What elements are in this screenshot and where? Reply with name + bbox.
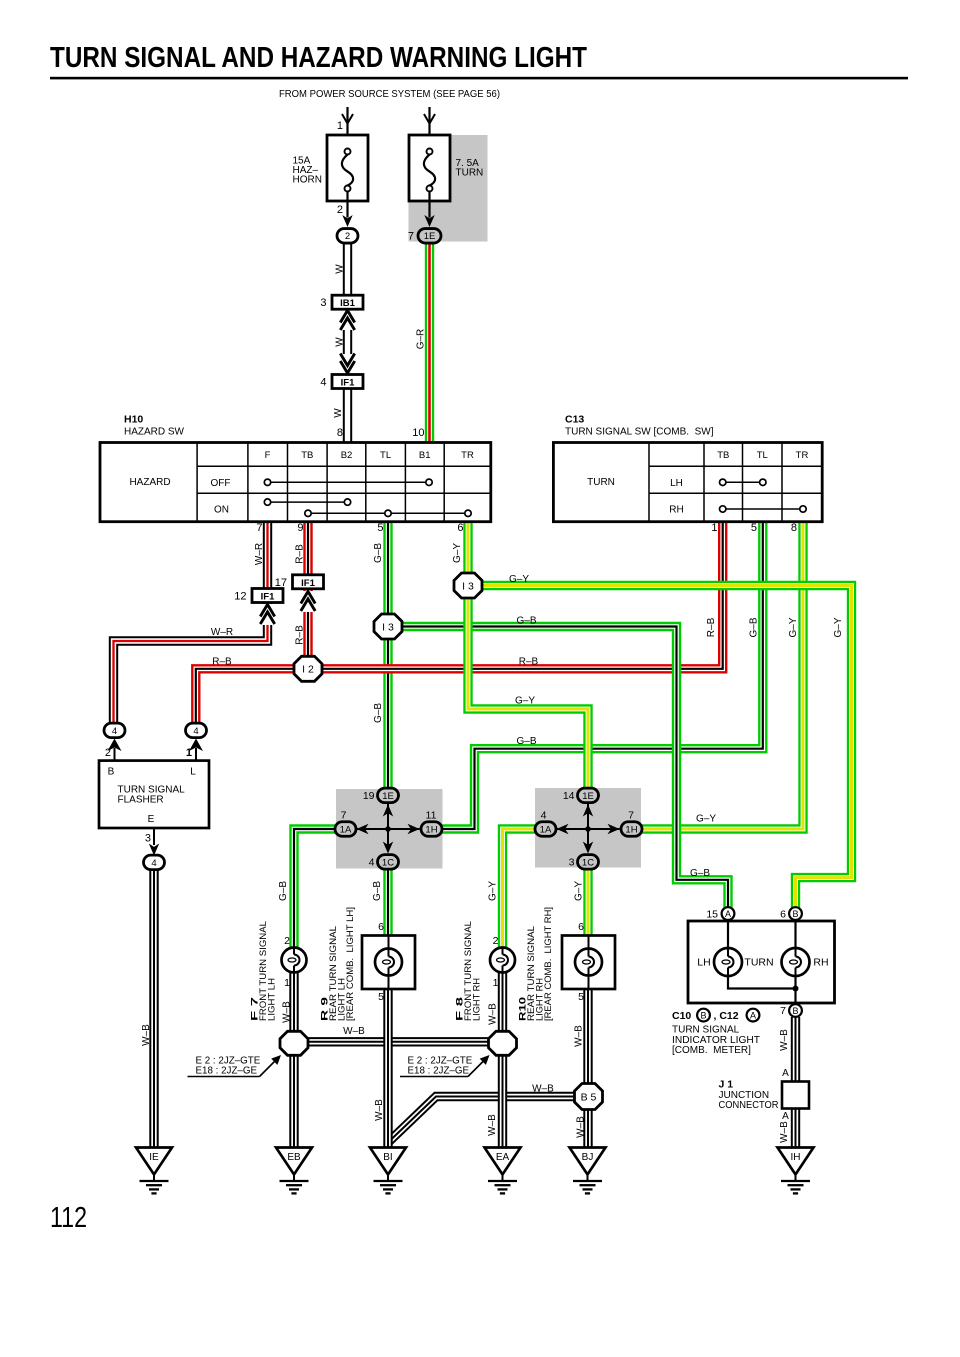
svg-text:G–Y: G–Y	[833, 617, 844, 637]
svg-text:IH: IH	[791, 1152, 801, 1163]
svg-text:4: 4	[193, 726, 198, 737]
svg-text:G–R: G–R	[415, 329, 426, 350]
svg-text:5: 5	[377, 522, 383, 534]
svg-text:4: 4	[320, 377, 326, 389]
svg-text:5: 5	[751, 522, 757, 534]
svg-text:R–B: R–B	[706, 617, 717, 637]
svg-text:6: 6	[457, 522, 463, 534]
svg-text:TURN: TURN	[744, 957, 773, 969]
svg-text:IF1: IF1	[261, 592, 275, 603]
svg-text:G–B: G–B	[516, 736, 536, 747]
svg-text:7: 7	[628, 810, 634, 822]
svg-text:I 3: I 3	[382, 621, 394, 633]
svg-text:W–B: W–B	[779, 1029, 790, 1051]
svg-text:G–B: G–B	[690, 868, 710, 879]
svg-text:1A: 1A	[540, 824, 552, 835]
svg-text:E18 : 2JZ–GE: E18 : 2JZ–GE	[408, 1065, 470, 1076]
svg-text:CONNECTOR: CONNECTOR	[719, 1100, 779, 1111]
svg-text:1: 1	[711, 522, 717, 534]
svg-text:3: 3	[569, 857, 575, 869]
svg-text:IF1: IF1	[301, 578, 315, 589]
svg-text:HAZARD SW: HAZARD SW	[124, 427, 185, 438]
svg-text:2: 2	[337, 204, 343, 216]
svg-text:ON: ON	[214, 505, 229, 516]
svg-text:B 5: B 5	[581, 1091, 597, 1103]
svg-text:FLASHER: FLASHER	[118, 795, 164, 806]
svg-text:C10: C10	[672, 1010, 691, 1022]
svg-text:TB: TB	[301, 450, 313, 461]
svg-text:IF1: IF1	[341, 378, 355, 389]
svg-text:R–B: R–B	[212, 657, 232, 668]
svg-text:G–B: G–B	[516, 616, 536, 627]
svg-text:A: A	[782, 1111, 789, 1122]
svg-text:1H: 1H	[425, 824, 437, 835]
svg-text:G–Y: G–Y	[788, 617, 799, 637]
svg-text:B2: B2	[341, 450, 353, 461]
svg-text:TURN: TURN	[456, 168, 484, 179]
svg-text:TB: TB	[717, 450, 729, 461]
svg-text:5: 5	[578, 991, 584, 1003]
svg-text:1: 1	[493, 977, 499, 989]
svg-text:W–R: W–R	[211, 627, 233, 638]
svg-text:F: F	[265, 450, 271, 461]
svg-text:TR: TR	[796, 450, 809, 461]
svg-text:A: A	[782, 1068, 789, 1079]
svg-text:7: 7	[780, 1005, 786, 1017]
svg-text:HORN: HORN	[293, 175, 322, 186]
svg-text:TR: TR	[461, 450, 474, 461]
svg-text:1H: 1H	[625, 824, 637, 835]
svg-text:[REAR COMB. LIGHT RH]: [REAR COMB. LIGHT RH]	[543, 907, 554, 1021]
svg-text:2: 2	[345, 231, 350, 242]
svg-text:W–B: W–B	[532, 1084, 554, 1095]
svg-text:TURN: TURN	[587, 477, 615, 488]
svg-text:1E: 1E	[424, 231, 436, 242]
svg-text:FROM POWER SOURCE SYSTEM (SEE: FROM POWER SOURCE SYSTEM (SEE PAGE 56)	[279, 89, 500, 100]
svg-text:W–R: W–R	[254, 543, 265, 565]
svg-text:A: A	[750, 1011, 756, 1021]
svg-text:1: 1	[284, 977, 290, 989]
svg-text:A: A	[725, 909, 731, 919]
svg-text:6: 6	[578, 921, 584, 933]
svg-text:TURN SIGNAL SW [COMB. SW]: TURN SIGNAL SW [COMB. SW]	[565, 427, 714, 438]
svg-text:W: W	[334, 337, 345, 347]
svg-text:TL: TL	[380, 450, 391, 461]
svg-text:3: 3	[320, 297, 326, 309]
svg-text:7: 7	[256, 522, 262, 534]
svg-text:BJ: BJ	[582, 1152, 594, 1163]
svg-text:IE: IE	[149, 1152, 159, 1163]
svg-text:I 2: I 2	[302, 664, 314, 676]
svg-text:W–B: W–B	[576, 1116, 587, 1138]
svg-text:14: 14	[563, 790, 575, 802]
svg-text:4: 4	[151, 858, 156, 869]
svg-text:G–B: G–B	[372, 881, 383, 901]
svg-text:W–B: W–B	[141, 1024, 152, 1046]
svg-text:2: 2	[284, 935, 290, 947]
svg-text:TURN SIGNAL: TURN SIGNAL	[672, 1025, 740, 1036]
svg-text:W–B: W–B	[487, 1114, 498, 1136]
svg-text:E18 : 2JZ–GE: E18 : 2JZ–GE	[196, 1065, 258, 1076]
svg-text:[COMB. METER]: [COMB. METER]	[672, 1045, 751, 1056]
svg-text:5: 5	[378, 991, 384, 1003]
svg-text:HAZARD: HAZARD	[129, 477, 170, 488]
svg-text:1: 1	[337, 120, 343, 132]
svg-text:1C: 1C	[582, 857, 594, 868]
svg-text:I 3: I 3	[462, 580, 474, 592]
svg-text:G–Y: G–Y	[509, 574, 529, 585]
svg-text:R–B: R–B	[519, 657, 539, 668]
svg-text:W–B: W–B	[488, 1003, 499, 1025]
svg-text:1: 1	[186, 747, 192, 759]
svg-text:1E: 1E	[582, 791, 594, 802]
svg-text:B: B	[108, 767, 115, 778]
svg-text:W–B: W–B	[343, 1026, 365, 1037]
svg-text:R–B: R–B	[295, 625, 306, 645]
svg-text:2: 2	[493, 935, 499, 947]
svg-text:C13: C13	[565, 414, 584, 426]
svg-text:R–B: R–B	[295, 544, 306, 564]
svg-text:B: B	[792, 909, 798, 919]
svg-text:G–Y: G–Y	[574, 881, 585, 901]
svg-text:LH: LH	[670, 478, 683, 489]
svg-text:2: 2	[105, 747, 111, 759]
svg-text:G–Y: G–Y	[488, 881, 499, 901]
svg-text:4: 4	[112, 726, 117, 737]
svg-text:W: W	[333, 408, 344, 418]
svg-text:W–B: W–B	[374, 1099, 385, 1121]
svg-text:TL: TL	[757, 450, 768, 461]
svg-text:12: 12	[234, 591, 246, 603]
svg-text:W–B: W–B	[574, 1025, 585, 1047]
svg-text:H10: H10	[124, 414, 143, 426]
svg-text:G–Y: G–Y	[696, 814, 716, 825]
svg-text:W–B: W–B	[779, 1121, 790, 1143]
svg-text:EB: EB	[287, 1152, 301, 1163]
svg-text:8: 8	[337, 427, 343, 439]
svg-text:BI: BI	[383, 1152, 392, 1163]
svg-text:10: 10	[412, 427, 424, 439]
svg-text:B: B	[700, 1011, 706, 1021]
svg-text:LIGHT LH: LIGHT LH	[267, 978, 278, 1021]
svg-text:G–Y: G–Y	[515, 696, 535, 707]
svg-text:112: 112	[50, 1202, 87, 1234]
svg-text:LH: LH	[697, 957, 710, 969]
svg-text:G–B: G–B	[373, 703, 384, 723]
svg-text:G–Y: G–Y	[452, 543, 463, 563]
svg-text:6: 6	[378, 921, 384, 933]
svg-text:1C: 1C	[382, 857, 394, 868]
svg-text:RH: RH	[813, 957, 828, 969]
svg-text:1A: 1A	[340, 824, 352, 835]
svg-text:15: 15	[706, 909, 718, 921]
svg-text:L: L	[190, 767, 196, 778]
svg-text:4: 4	[369, 857, 375, 869]
svg-text:3: 3	[145, 833, 151, 845]
svg-text:7: 7	[408, 231, 414, 243]
svg-text:G–B: G–B	[749, 617, 760, 637]
svg-text:9: 9	[297, 522, 303, 534]
svg-text:EA: EA	[496, 1152, 510, 1163]
svg-text:B: B	[792, 1006, 798, 1016]
svg-text:G–B: G–B	[373, 543, 384, 563]
svg-text:8: 8	[791, 522, 797, 534]
svg-text:1E: 1E	[382, 791, 394, 802]
svg-text:E: E	[148, 814, 155, 825]
svg-text:RH: RH	[669, 505, 683, 516]
svg-text:TURN SIGNAL AND HAZARD WARNING: TURN SIGNAL AND HAZARD WARNING LIGHT	[50, 42, 587, 74]
svg-text:, C12: , C12	[714, 1010, 739, 1022]
svg-text:OFF: OFF	[211, 478, 231, 489]
svg-text:19: 19	[363, 790, 375, 802]
svg-text:4: 4	[541, 810, 547, 822]
svg-text:11: 11	[426, 810, 437, 822]
svg-text:W: W	[334, 264, 345, 274]
svg-text:[REAR COMB. LIGHT LH]: [REAR COMB. LIGHT LH]	[345, 907, 356, 1021]
svg-text:G–B: G–B	[278, 881, 289, 901]
svg-text:J 1: J 1	[719, 1079, 734, 1091]
svg-text:LIGHT RH: LIGHT RH	[472, 978, 483, 1021]
svg-text:B1: B1	[419, 450, 431, 461]
svg-text:IB1: IB1	[340, 298, 356, 309]
svg-text:17: 17	[275, 577, 287, 589]
svg-text:7: 7	[341, 810, 347, 822]
svg-text:W–B: W–B	[281, 1001, 292, 1023]
svg-text:6: 6	[780, 909, 786, 921]
